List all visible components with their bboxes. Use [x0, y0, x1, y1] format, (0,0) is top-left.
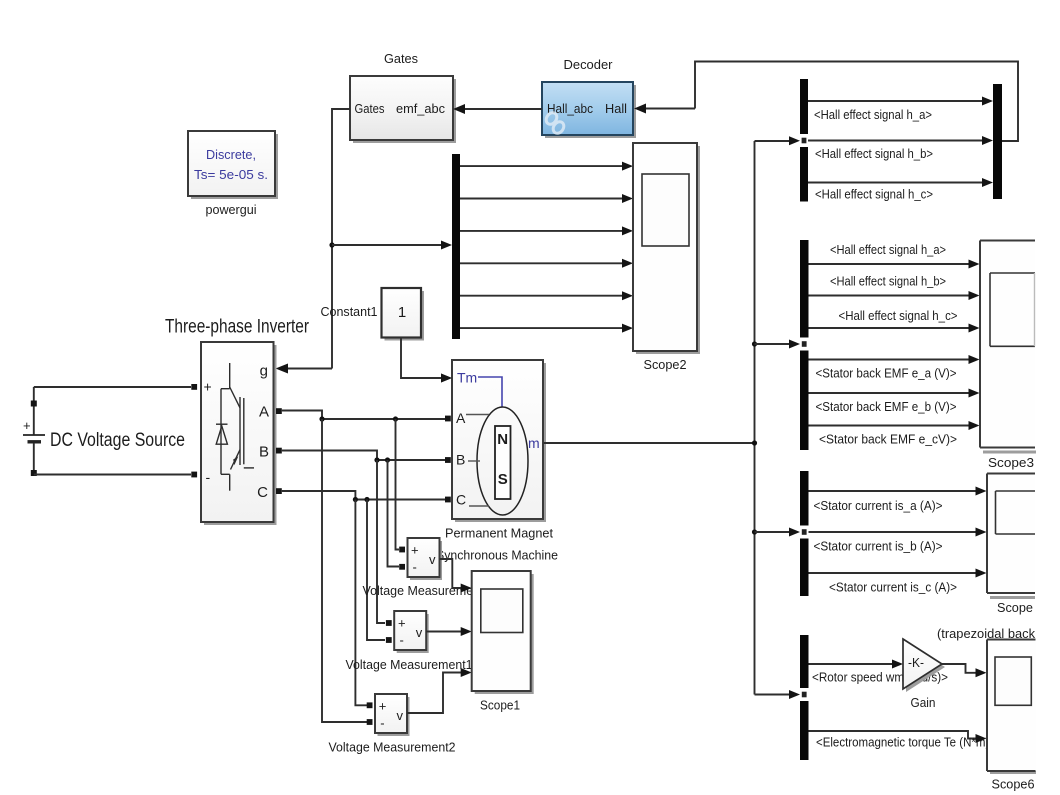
wire DC+ to inverter + — [34, 386, 191, 388]
wire A branch to VM plus — [396, 419, 400, 550]
wire phase C from inverter — [282, 491, 445, 500]
wire BS3 out1 — [809, 490, 978, 492]
svg-text:+: + — [379, 699, 387, 714]
wire BS1 out h_b — [808, 140, 984, 142]
svg-text:<Electromagnetic torque Te (N*: <Electromagnetic torque Te (N*m)> — [816, 736, 996, 750]
svg-text:Discrete,: Discrete, — [206, 147, 256, 162]
wire BS1 out h_a — [808, 100, 984, 102]
svg-text:Scope6: Scope6 — [992, 777, 1035, 792]
node junction on Gates wire — [329, 242, 334, 247]
svg-text:Gates: Gates — [355, 101, 385, 116]
svg-text:C: C — [257, 484, 268, 501]
svg-text:Scope3: Scope3 — [988, 455, 1034, 470]
wire BS2 out1 — [809, 263, 971, 265]
wire B branch to VM1 plus — [377, 460, 385, 623]
Decoder block — [542, 82, 636, 138]
wire BS4 out2 to Scope6 in2 — [809, 731, 978, 739]
wire phase A from inverter — [282, 411, 445, 420]
svg-text:Constant1: Constant1 — [321, 304, 378, 319]
svg-text:Ts= 5e-05 s.: Ts= 5e-05 s. — [194, 167, 268, 182]
svg-text:N: N — [497, 431, 508, 448]
node m junctions — [752, 341, 757, 346]
wire branch to demux — [332, 244, 443, 246]
Voltage Measurement2 block VM2 — [367, 694, 410, 736]
wire BS2 out3 — [809, 327, 971, 329]
Three-phase Inverter block — [201, 342, 277, 525]
svg-text:C: C — [456, 492, 466, 508]
svg-text:Scope: Scope — [997, 600, 1033, 615]
inverter port pads — [191, 384, 197, 390]
wire Gates output down-left — [332, 109, 350, 369]
wire VM2 output to Scope1 in3 — [407, 673, 462, 714]
svg-text:v: v — [397, 708, 404, 723]
svg-text:<Stator back EMF e_a (V)>: <Stator back EMF e_a (V)> — [816, 367, 957, 381]
arrowhead Scope6 in2 — [976, 734, 987, 743]
wire VM output to Scope1 in1 — [440, 559, 463, 588]
svg-text:Decoder: Decoder — [564, 57, 614, 72]
wire BS4 out1 to Gain — [809, 663, 895, 665]
svg-text:B: B — [259, 444, 269, 461]
svg-text:-: - — [380, 716, 384, 731]
wire B branch to VM minus — [388, 460, 400, 567]
svg-text:Voltage Measurement: Voltage Measurement — [363, 583, 484, 598]
svg-text:B: B — [456, 452, 465, 468]
svg-text:A: A — [456, 410, 466, 426]
wire Gain output to Scope6 in1 — [942, 664, 978, 673]
wire BS3 out2 — [809, 531, 978, 533]
Permanent Magnet Synchronous Machine block — [452, 360, 546, 522]
svg-text:<Stator current is_c (A)>: <Stator current is_c (A)> — [829, 581, 957, 595]
wire A branch to VM2 minus — [322, 419, 367, 722]
svg-text:+: + — [398, 616, 406, 631]
PMSM Tm input arrowhead — [441, 374, 452, 383]
powergui block U_powergui — [188, 131, 278, 199]
svg-text:Permanent Magnet: Permanent Magnet — [445, 526, 553, 541]
BusSelector4 bar — [800, 635, 809, 760]
svg-text:Voltage Measurement1: Voltage Measurement1 — [346, 657, 473, 672]
svg-text:<Stator back EMF e_b (V)>: <Stator back EMF e_b (V)> — [816, 400, 957, 414]
wire to BusSelector4 — [755, 694, 792, 696]
svg-text:DC Voltage Source: DC Voltage Source — [50, 430, 185, 451]
wire BS2 out4 — [809, 359, 971, 361]
wire C branch to VM2 plus — [355, 500, 367, 706]
BusSelector2 bar — [800, 240, 809, 450]
svg-text:m: m — [528, 435, 540, 451]
DC Voltage Source battery symbol — [23, 387, 45, 476]
svg-text:v: v — [429, 552, 436, 567]
svg-text:+: + — [411, 543, 419, 558]
wire BS1 out h_c — [808, 182, 984, 184]
BusSelector1 bar — [800, 79, 808, 202]
svg-text:<Hall effect signal h_c>: <Hall effect signal h_c> — [815, 188, 933, 202]
Constant1 block — [382, 288, 425, 341]
PMSM port pads A B C — [445, 416, 451, 422]
svg-text:+: + — [23, 418, 31, 433]
svg-text:<Hall effect signal h_c>: <Hall effect signal h_c> — [839, 309, 958, 323]
svg-text:-: - — [206, 469, 211, 485]
node A-PMSM junction — [319, 416, 324, 421]
wire DC- to inverter - — [34, 474, 191, 476]
svg-text:<Hall effect signal h_b>: <Hall effect signal h_b> — [815, 147, 933, 161]
wire phase B from inverter — [282, 451, 445, 461]
Scope1 block — [472, 571, 534, 694]
wire demux out 3 — [460, 230, 624, 232]
svg-text:Scope1: Scope1 — [480, 698, 520, 713]
wire to BusSelector2 — [755, 343, 792, 345]
Scope4 block (clipped at right) — [987, 474, 1035, 600]
wire BS3 out3 — [809, 572, 978, 574]
mux bar for hall signals — [993, 84, 1002, 199]
wire BS2 out2 — [809, 295, 971, 297]
wire BS2 out5 — [809, 392, 971, 394]
demux (black bar) for Scope2 — [452, 154, 460, 339]
svg-text:powergui: powergui — [206, 202, 257, 217]
Scope6 block (clipped at right) — [987, 640, 1036, 775]
wire demux out 5 — [460, 295, 624, 297]
svg-text:Hall: Hall — [605, 101, 627, 116]
wire mux output loop to Decoder — [695, 62, 1018, 142]
svg-text:-: - — [413, 560, 417, 575]
Voltage Measurement block VM — [399, 538, 442, 580]
wire demux out 4 — [460, 262, 624, 264]
wire PMSM m output — [544, 442, 755, 444]
BusSelector3 bar — [800, 471, 809, 596]
wire branch to inverter g — [287, 368, 332, 370]
svg-text:Tm: Tm — [457, 370, 477, 386]
svg-text:Three-phase Inverter: Three-phase Inverter — [165, 317, 310, 338]
wire into Decoder.Hall from mux loop — [644, 108, 695, 110]
svg-text:-K-: -K- — [908, 655, 924, 670]
svg-text:<Stator back EMF e_cV)>: <Stator back EMF e_cV)> — [819, 433, 957, 447]
wire to BusSelector3 — [755, 531, 792, 533]
svg-text:Synchronous Machine: Synchronous Machine — [436, 548, 558, 563]
subsystem Gates — [350, 76, 456, 143]
svg-text:Voltage Measurement2: Voltage Measurement2 — [329, 740, 456, 755]
wire VM1 output to Scope1 in2 — [426, 631, 462, 633]
Gain block triangle — [903, 639, 945, 692]
Voltage Measurement1 block VM1 — [386, 611, 429, 653]
svg-text:<Hall effect signal h_a>: <Hall effect signal h_a> — [814, 108, 932, 122]
node B junctions — [374, 457, 379, 462]
wire Decoder.Hall_abc to Gates.emf_abc — [463, 108, 542, 110]
svg-text:v: v — [416, 625, 423, 640]
wire C branch to VM1 minus — [367, 500, 385, 641]
wire demux out 1 — [460, 165, 624, 167]
svg-text:<Hall effect signal h_b>: <Hall effect signal h_b> — [830, 275, 946, 289]
svg-text:g: g — [260, 363, 268, 380]
wire to BusSelector1 — [755, 140, 792, 142]
wire demux out 6 — [460, 327, 624, 329]
svg-text:<Stator current is_a (A)>: <Stator current is_a (A)> — [814, 499, 943, 513]
inverter interior IGBT and diode icon — [216, 363, 254, 491]
node C junctions — [353, 497, 358, 502]
svg-text:Gain: Gain — [911, 695, 936, 710]
Scope3 block (clipped at right) — [980, 241, 1036, 454]
svg-text:A: A — [259, 404, 269, 421]
wire Constant1 to PMSM Tm — [401, 338, 443, 379]
svg-text:<Stator current is_b (A)>: <Stator current is_b (A)> — [814, 540, 943, 554]
svg-text:1: 1 — [398, 304, 406, 321]
wire BS2 out6 — [809, 425, 971, 427]
svg-text:-: - — [400, 633, 404, 648]
svg-text:S: S — [498, 471, 508, 488]
wire main m-signal vertical — [754, 141, 756, 695]
svg-text:Scope2: Scope2 — [644, 357, 687, 372]
svg-text:<Hall effect signal h_a>: <Hall effect signal h_a> — [830, 243, 946, 257]
Scope2 block — [633, 143, 700, 354]
wire demux out 2 — [460, 198, 624, 200]
svg-text:+: + — [204, 379, 212, 395]
svg-text:Gates: Gates — [384, 51, 418, 66]
svg-text:emf_abc: emf_abc — [396, 101, 445, 116]
